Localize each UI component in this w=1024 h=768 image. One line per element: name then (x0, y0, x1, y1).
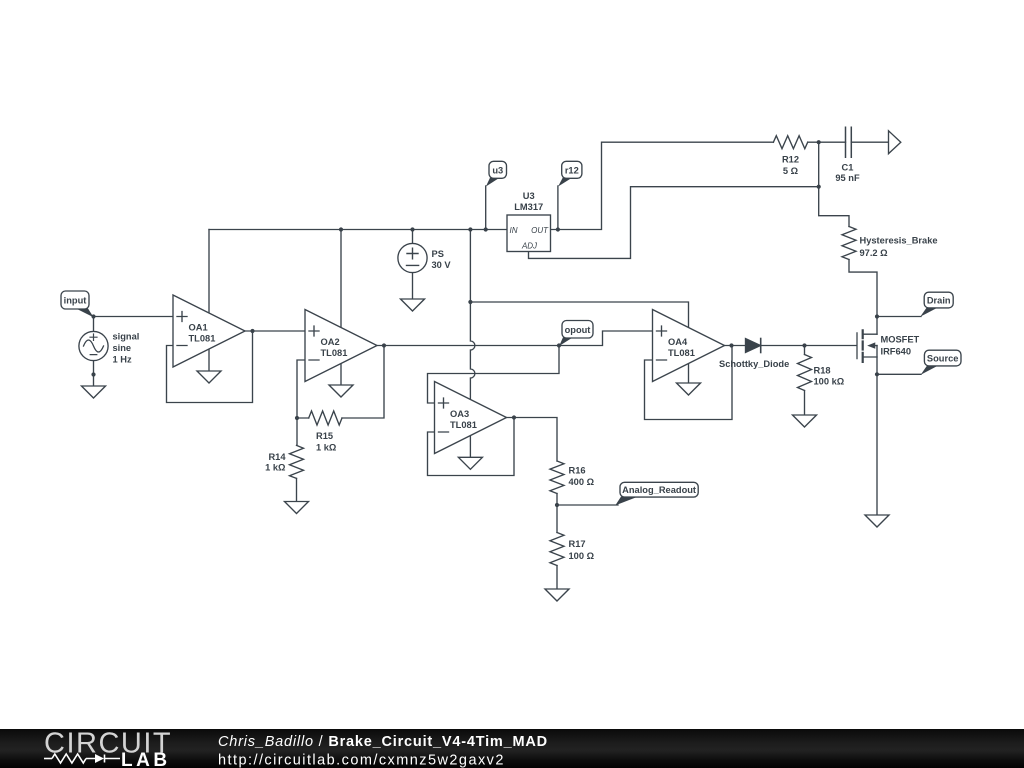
ground under R18 (793, 415, 817, 427)
wire OA3 feedback loop (428, 418, 515, 476)
ground under OA4 (677, 383, 701, 395)
power supply PS circle (398, 243, 427, 272)
svg-text:Source: Source (927, 354, 959, 364)
capacitor C1 plates (846, 127, 852, 157)
wire OA1 V+ pin (208, 230, 210, 314)
svg-text:input: input (64, 296, 87, 306)
svg-text:TL081: TL081 (668, 348, 695, 358)
wire opout node to OA3 + (428, 346, 560, 404)
svg-text:sine: sine (113, 343, 132, 353)
svg-text:Analog_Readout: Analog_Readout (622, 485, 696, 495)
svg-text:U3: U3 (523, 191, 535, 201)
node OA3 output (512, 415, 516, 419)
wire OA4 feedback loop (645, 346, 733, 420)
diode Schottky_Diode (746, 339, 761, 353)
svg-text:TL081: TL081 (189, 334, 216, 344)
svg-text:OA1: OA1 (189, 323, 208, 333)
ground under signal source (82, 386, 106, 398)
svg-text:ADJ: ADJ (521, 242, 538, 251)
svg-text:R18: R18 (814, 366, 831, 376)
transistor MOSFET IRF640 (856, 333, 858, 359)
op-amp OA4 triangle (653, 310, 725, 382)
flag u3 (486, 178, 500, 187)
node OA2 output (382, 343, 386, 347)
ground under OA2 (329, 385, 353, 397)
svg-text:Schottky_Diode: Schottky_Diode (719, 359, 789, 369)
wire PS top stem (412, 230, 414, 244)
node u3 flag on rail (484, 227, 488, 231)
ground under OA3 (458, 457, 482, 469)
svg-text:signal: signal (113, 332, 140, 342)
svg-text:400 Ω: 400 Ω (569, 477, 595, 487)
wire source flag (877, 373, 921, 375)
resistor R18 zigzag (798, 355, 812, 391)
node OA1 output (250, 329, 254, 333)
wire OA1 V- pin (208, 349, 210, 371)
node opout junction (557, 343, 561, 347)
svg-text:OA2: OA2 (321, 337, 340, 347)
op-amp OA1 triangle (173, 295, 245, 367)
svg-text:5 Ω: 5 Ω (783, 166, 799, 176)
ground under R14 (285, 502, 309, 514)
wire u3 flag stem (485, 186, 487, 230)
svg-text:OA3: OA3 (450, 409, 469, 419)
wire PS bottom stem (412, 273, 414, 299)
ground under PS (401, 299, 425, 311)
svg-text:R14: R14 (268, 452, 286, 462)
flag Analog_Readout (615, 497, 638, 506)
resistor Hysteresis_Brake zigzag (842, 227, 856, 260)
svg-text:R17: R17 (569, 539, 586, 549)
node OA4 V+ branch (468, 300, 472, 304)
svg-text:IN: IN (510, 226, 518, 235)
svg-text:MOSFET: MOSFET (881, 335, 920, 345)
wire OA3 V- pin (469, 436, 471, 458)
wire Analog_Readout flag (557, 504, 618, 506)
wire drain flag (877, 316, 921, 318)
svg-text:1 kΩ: 1 kΩ (265, 463, 286, 473)
svg-text:100 kΩ: 100 kΩ (814, 377, 845, 387)
wire OA4 V+ branch (470, 302, 688, 328)
svg-text:r12: r12 (565, 165, 579, 175)
node PS on rail (410, 227, 414, 231)
svg-text:1 kΩ: 1 kΩ (316, 442, 337, 452)
node ADJ line junction (817, 185, 821, 189)
resistor R17 zigzag (550, 533, 564, 566)
logo squiggle resistor diode (44, 754, 120, 763)
resistor R14 zigzag (290, 445, 304, 478)
output terminal arrow (889, 131, 901, 154)
node input junction (91, 314, 95, 318)
wire OA4 V- pin (688, 364, 690, 384)
wire OA3 output to R16 (507, 418, 558, 462)
node MOSFET source (875, 372, 879, 376)
flag opout (559, 337, 573, 346)
wire R12 to C1 node (808, 141, 846, 143)
wire OA1 feedback loop (167, 331, 253, 403)
node OA2 V+ on rail (339, 227, 343, 231)
svg-text:Chris_Badillo / Brake_Circuit_: Chris_Badillo / Brake_Circuit_V4-4Tim_MA… (218, 734, 548, 750)
op-amp OA2 triangle (305, 310, 377, 382)
svg-text:R12: R12 (782, 155, 799, 165)
wire OA3 V+ branch with hops (470, 230, 475, 400)
wire R14 bottom lead (296, 478, 298, 501)
wire R15 leads (297, 346, 384, 419)
wire V+ rail 30V (209, 229, 507, 231)
node signal source ground junction (91, 372, 95, 376)
wire diode to MOSFET gate (761, 345, 857, 347)
wire C1 to output arrow (851, 141, 888, 143)
svg-text:Hysteresis_Brake: Hysteresis_Brake (860, 236, 938, 246)
node R12 C1 junction (817, 140, 821, 144)
voltage regulator U3 LM317 box (507, 215, 551, 252)
wire OA4 output to diode (725, 345, 746, 347)
svg-text:PS: PS (432, 249, 444, 259)
wire U3 ADJ path (529, 187, 819, 259)
signal source V1 circle (79, 331, 108, 360)
resistor R16 zigzag (550, 461, 564, 494)
svg-text:30 V: 30 V (432, 260, 452, 270)
svg-text:IRF640: IRF640 (881, 347, 912, 357)
svg-text:95 nF: 95 nF (835, 173, 860, 183)
wire r12 flag stem (557, 186, 559, 230)
wire OA1 output to OA2 + (245, 330, 305, 332)
svg-text:R15: R15 (316, 431, 333, 441)
node R18 junction (802, 343, 806, 347)
op-amp OA3 triangle (435, 382, 507, 454)
flag input (76, 309, 94, 318)
flag Source (921, 366, 938, 375)
svg-text:97.2 Ω: 97.2 Ω (860, 248, 889, 258)
wire Hysteresis_Brake to MOSFET drain (849, 260, 877, 335)
wire OA2 V- pin (340, 364, 342, 386)
node R14 R15 junction (295, 416, 299, 420)
wire R17 leads (556, 505, 558, 589)
wire OA2 output to OA4 + (377, 331, 653, 346)
ground under OA1 (197, 371, 221, 383)
svg-text:100 Ω: 100 Ω (569, 551, 595, 561)
svg-text:u3: u3 (492, 165, 503, 175)
wire OA2 V+ pin (340, 230, 342, 328)
svg-text:OUT: OUT (531, 226, 549, 235)
wire node to Hysteresis_Brake (819, 142, 849, 226)
wire U3 OUT to R12 riser (551, 142, 774, 229)
wire R14 top lead (296, 418, 298, 445)
ground under R17 (545, 589, 569, 601)
flag Drain (920, 308, 937, 317)
svg-text:LM317: LM317 (514, 202, 543, 212)
resistor R12 zigzag (773, 136, 807, 149)
svg-text:1 Hz: 1 Hz (113, 355, 132, 365)
svg-text:R16: R16 (569, 466, 586, 476)
wire MOSFET source to ground (876, 346, 878, 515)
svg-text:TL081: TL081 (450, 420, 477, 430)
node R16 R17 junction (555, 503, 559, 507)
flag r12 (558, 178, 572, 187)
svg-text:OA4: OA4 (668, 337, 688, 347)
node OA4 output (729, 343, 733, 347)
svg-text:Drain: Drain (927, 296, 951, 306)
node r12 flag at OUT (556, 227, 560, 231)
node rail to OA3 branch (468, 227, 472, 231)
wire R16 bottom lead (556, 494, 558, 506)
svg-text:opout: opout (565, 325, 591, 335)
wire input net (94, 317, 174, 387)
svg-text:C1: C1 (842, 163, 854, 173)
node MOSFET drain (875, 314, 879, 318)
wire OA2 inverting input to R15 node (297, 360, 305, 418)
resistor R15 zigzag (309, 411, 342, 425)
svg-text:TL081: TL081 (321, 348, 348, 358)
ground under MOSFET source (865, 515, 889, 527)
svg-text:http://circuitlab.com/cxmnz5w2: http://circuitlab.com/cxmnz5w2gaxv2 (218, 753, 505, 768)
svg-text:LAB: LAB (121, 750, 171, 768)
wire R18 leads (804, 346, 806, 416)
